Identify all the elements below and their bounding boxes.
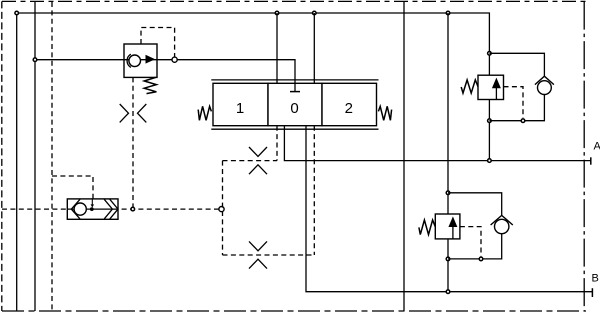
shuttle valve SV1 centre flow line <box>67 208 118 210</box>
shuttle valve SV1 right seat chevrons <box>104 199 118 219</box>
check valve CV3 seat chevron <box>491 215 513 225</box>
check valve CV2 ball <box>538 81 552 95</box>
svg-text:1: 1 <box>236 100 244 117</box>
check valve CV1 body <box>124 44 157 77</box>
shuttle valve SV1 ball <box>74 203 86 215</box>
check valve CV1 ball <box>129 55 141 67</box>
directional valve position box 2 <box>322 83 377 125</box>
check valve CV3 ball <box>495 219 509 233</box>
enclosure right dashed border <box>583 2 585 311</box>
pilot line: CV1 top pilot (dashed) to open port on feed line <box>141 28 175 58</box>
wire: A feed from valve bottom x=284.4 down then right (port A line) <box>284 126 590 161</box>
node: junction (489.4,53.3) <box>488 52 492 56</box>
shuttle valve SV1 body <box>67 199 118 219</box>
wire: RV2/CV3 bottom branch y=258.9 <box>448 234 502 259</box>
port A tick <box>590 157 592 164</box>
wire: RV2/CV3 top branch y=192.8 <box>448 193 502 216</box>
shuttle valve SV1 pilot inlet stub and arrow <box>91 199 94 208</box>
check valve CV1 flow arrow <box>146 55 156 64</box>
directional valve rail bottom <box>211 128 378 130</box>
relief valve RV2 body <box>435 214 460 239</box>
wire: drain line (dashed) x=52 <box>51 2 53 311</box>
relief valve RV2 spring <box>419 220 435 235</box>
shuttle valve SV1 left seat chevron <box>71 199 80 219</box>
wire: tank line x=404 <box>403 2 405 311</box>
wire: RV1/CV2 bottom branch y=120.7 <box>489 94 544 120</box>
pilot line: dashed frame left edge x=222.5 <box>222 161 224 255</box>
re-draw plugged feed entering box 0 <box>290 83 300 91</box>
relief valve RV1 spring <box>461 80 478 93</box>
svg-text:B: B <box>592 273 599 285</box>
plug X on dashed frame bottom edge <box>249 241 267 268</box>
relief valve RV1 internal flow arrow <box>493 79 500 100</box>
enclosure left dashed border <box>1 1 3 311</box>
svg-text:2: 2 <box>345 100 353 117</box>
pilot line: shuttle output (dashed) to dashed-frame port <box>118 208 219 210</box>
wire: supply riser x=35 <box>34 2 36 311</box>
svg-text:A: A <box>594 141 600 153</box>
node: junction (489.4,160.6) <box>488 159 492 163</box>
port: open circle on dashed frame (221.5,209.1) <box>219 207 224 212</box>
pilot line: valve bottom dashed x=314.3 down to dashed frame <box>313 126 315 255</box>
wire: top bus y=13.0 from x16.7 to corner x489.4 then down to node <box>17 13 490 53</box>
shuttle valve SV1 outlet node dot <box>90 207 94 211</box>
port B label <box>592 273 599 285</box>
node: junction pilot RV2 (481,258.9) <box>479 257 483 261</box>
node: junction (448,291.7) <box>446 290 450 294</box>
enclosure bottom dashed border <box>2 310 586 312</box>
plug X on CV1 pilot line <box>120 104 147 122</box>
directional valve position box 0 <box>268 83 322 125</box>
node: junction (448,192.8) <box>446 191 450 195</box>
node: junction (448,258.9) <box>446 257 450 261</box>
node: junction of CV1 pilot and shuttle output (132.8,209.1) <box>131 207 135 211</box>
pilot line: dashed frame bottom edge y=255 <box>223 254 315 256</box>
port A label <box>594 141 600 153</box>
plug X on dashed frame top edge <box>249 147 267 174</box>
wire: RV1/CV2 top branch y=53.3 <box>489 53 544 76</box>
node: junction (489.4,120.7) <box>488 119 492 123</box>
node: junction pilot RV1 (523,120.7) <box>521 119 525 123</box>
directional valve position box 1 <box>213 83 268 125</box>
pilot line: valve bottom dashed x=277 down to dashed frame <box>276 126 278 161</box>
port B tick <box>591 288 593 297</box>
wire: pressure supply riser x=16.7 <box>16 13 18 311</box>
pilot line: CV1 bottom pilot (dashed) down to shuttle output node <box>132 77 134 207</box>
relief valve RV1 body <box>478 75 504 99</box>
wire: P riser into valve x=277 <box>276 13 278 83</box>
pilot line: RV2 (dashed) to bottom branch <box>460 227 481 257</box>
plugged line end (T-bar) inside box 0 <box>290 91 300 93</box>
wire: T riser into valve x=314.3 <box>313 13 315 83</box>
pilot line: RV1 (dashed) to bottom branch <box>504 87 524 118</box>
svg-text:0: 0 <box>290 100 298 117</box>
wire: branch riser x=489.4 from top bus corner down to port A line <box>488 53 490 160</box>
node: junction (314.3,13.0) <box>313 11 317 15</box>
enclosure top dashed border <box>2 0 586 2</box>
directional valve rail top <box>211 79 378 81</box>
node: corner junction (35,59.7) <box>33 58 37 62</box>
pilot line: shuttle inlet from boundary (dashed) y=209.1 <box>2 208 68 210</box>
check valve CV1 spring <box>144 77 156 93</box>
pilot line: dashed frame top edge y=160.6 <box>223 160 278 162</box>
wire: B feed from valve bottom x=306 down then right (port B line) <box>306 126 592 292</box>
check valve CV1 flow line <box>124 59 157 61</box>
directional valve left spring <box>198 106 211 120</box>
wire: main riser x=448 from top bus to port B line <box>447 13 449 292</box>
node: junction (277,13.0) <box>275 11 279 15</box>
check valve CV1 seat arc <box>127 54 131 67</box>
pilot line: drain branch to shuttle valve (dashed) <box>52 176 93 199</box>
node: junction (448,13.0) <box>446 11 450 15</box>
relief valve RV2 internal flow arrow <box>449 218 456 239</box>
directional valve right spring <box>378 106 391 120</box>
wire: feed line y=59.7 from x35 through CV1 then corner down into valve centre box <box>35 60 295 92</box>
node: corner junction (16.7,13.0) <box>15 11 19 15</box>
check valve CV2 seat chevron <box>535 76 554 84</box>
port: open circle on feed line (174.6,59.7) <box>172 57 177 62</box>
